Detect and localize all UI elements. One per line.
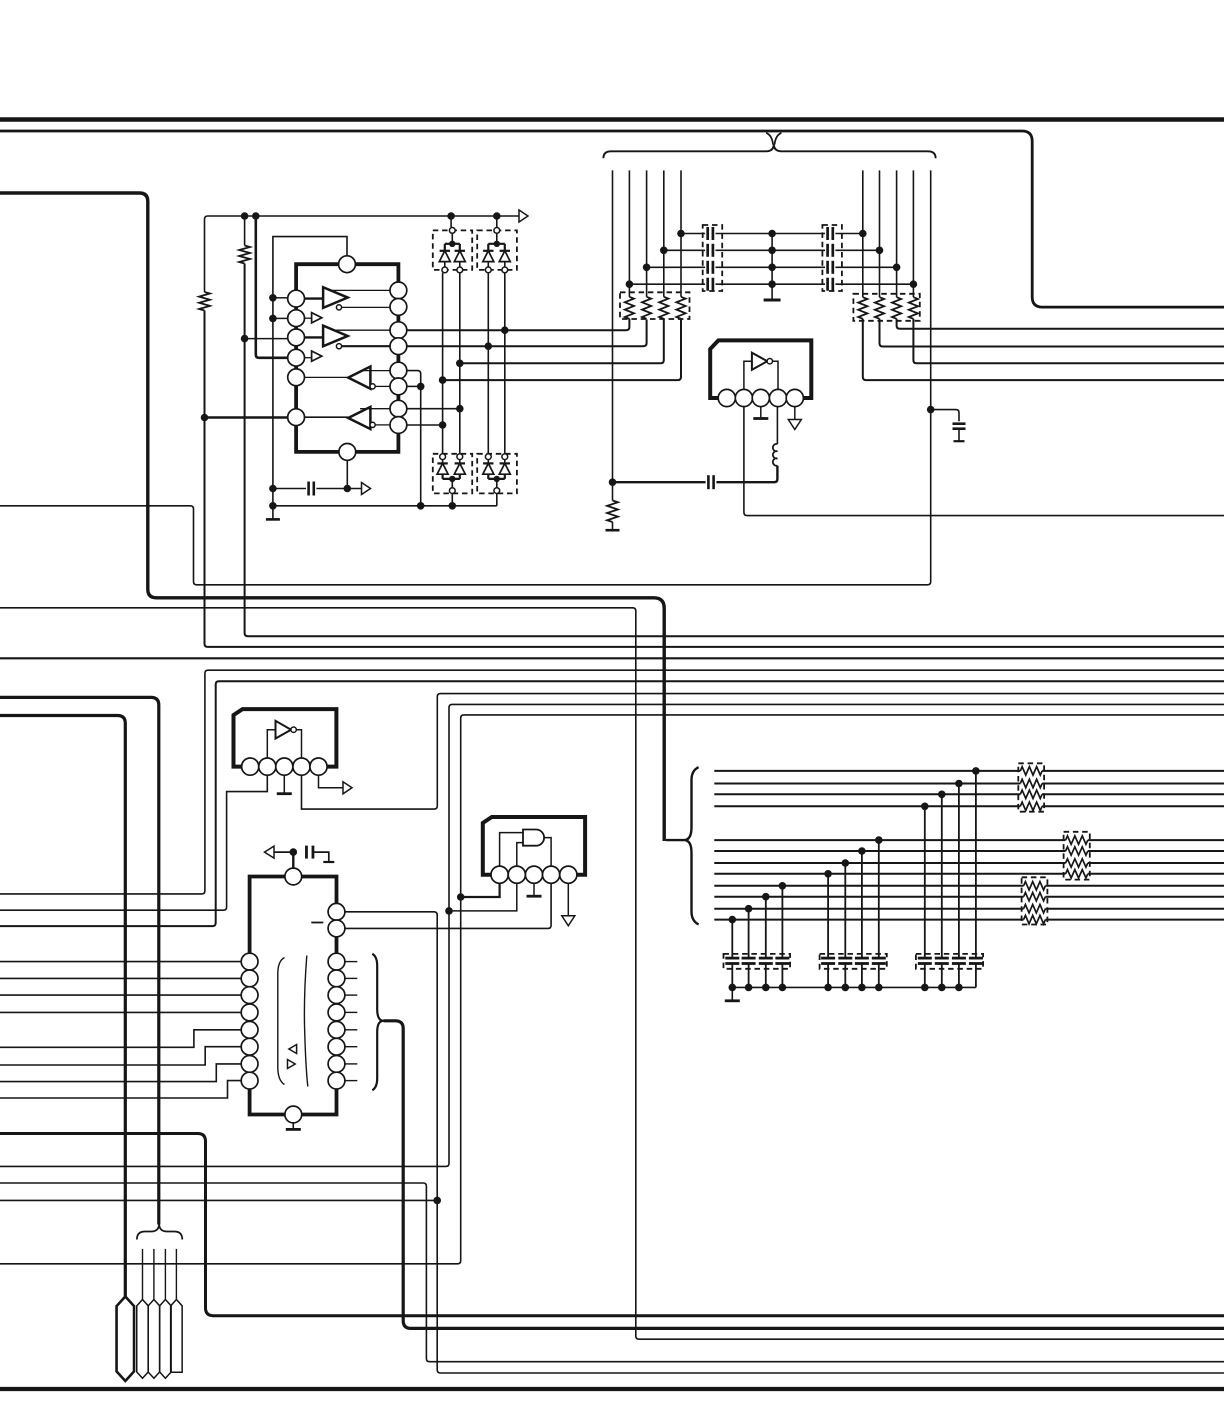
U1 left pin 5 — [288, 369, 305, 386]
U3 pin 1 — [242, 758, 259, 775]
U3 pin 4 — [293, 758, 310, 775]
capacitor C3 with ground — [931, 410, 966, 442]
arrow U4 pin5 down — [562, 916, 575, 926]
capacitor CA2 array — [820, 954, 887, 969]
op-amp U5 outline — [250, 877, 337, 1115]
node junction bus-x244 — [241, 212, 249, 220]
U5 small triangle right — [288, 1060, 296, 1069]
connector P1 big pin — [117, 1297, 135, 1382]
wire U3 pin4 net long right — [302, 694, 1224, 810]
wire y1200 from left — [0, 1199, 437, 1201]
U5 inner bracket right — [304, 956, 307, 1087]
connector P1 pin3 — [148, 1300, 160, 1379]
wire U4 pin2 net — [0, 704, 1224, 1166]
U1 top pin — [339, 256, 356, 273]
U1 right pin 1 — [390, 282, 407, 299]
wire U5 pin feeds 1-4 — [0, 962, 241, 1013]
wire y1183 net — [0, 1183, 1224, 1362]
U4 pin 5 — [560, 866, 577, 883]
node junction center-C — [768, 264, 776, 272]
wire D4 to bus — [496, 493, 498, 505]
resistor R3 — [607, 501, 618, 523]
wire top bus y216 with left drop x204.5 — [205, 216, 1224, 647]
ground G1 — [266, 516, 280, 520]
wire x879 out right — [880, 319, 1224, 347]
node junction x896-busC — [893, 264, 901, 272]
U1 right pin 7 — [390, 400, 407, 417]
wire vleft4 x663 — [663, 170, 665, 296]
node junction bus-x451 — [447, 212, 455, 220]
wire R3 to ground — [612, 522, 614, 530]
ground G3 — [764, 299, 781, 302]
ground G9 — [725, 999, 740, 1002]
op-amp U3 outline — [234, 709, 337, 767]
resistor RN4 network — [1064, 832, 1090, 880]
wire U1 inv D lines — [305, 409, 391, 425]
U5 left pin 3 — [241, 987, 258, 1004]
wire vright2 x879 — [879, 170, 881, 297]
inverter U2 bubble — [767, 359, 772, 364]
resistor RN5 network — [1022, 877, 1048, 924]
U1 right pin 4 — [390, 338, 407, 355]
resistor RN3 network — [1018, 763, 1044, 811]
wire U5 top pin net with cap arrow — [274, 846, 329, 868]
U5 left pin 4 — [241, 1004, 258, 1021]
U5 right pin 10 — [328, 1072, 345, 1089]
U2 pin 5 — [786, 389, 803, 406]
wire vleft3 x646 — [646, 170, 648, 296]
ground G6 — [527, 895, 542, 898]
wire long y658 full width — [0, 657, 1224, 659]
node junction x272-caprow — [269, 485, 277, 493]
capacitor CA3 array — [916, 954, 983, 969]
wire connector leads — [143, 1249, 177, 1300]
wire cap array taps — [729, 767, 980, 991]
wire long W4 y681 — [0, 681, 1224, 926]
resistor R2 — [239, 246, 250, 264]
wire diode drop x443 — [442, 273, 444, 454]
U4 pin 3 — [525, 866, 542, 883]
wire line y380 — [443, 320, 681, 381]
wire line y363 — [460, 320, 664, 364]
wire thick A to connector brace — [0, 697, 159, 1224]
node junction x612-caprow — [609, 478, 617, 486]
wire U4 pin4 link to U5 — [345, 883, 551, 928]
node junction x244-pin3 — [241, 335, 249, 343]
wire sub-border rail to right mid — [0, 131, 1224, 307]
U5 right pin 8 — [328, 1038, 345, 1055]
wire U5 staircase feed 8 — [0, 1081, 241, 1098]
wire diode drop x504 — [504, 273, 506, 454]
capacitor C2 row to U2 — [613, 466, 778, 490]
U5 left pin 5 — [241, 1021, 258, 1038]
wire U4 pin5 stub — [567, 883, 569, 916]
node junction bus-x420 — [417, 502, 425, 510]
wire pin1 feed — [273, 297, 288, 299]
wire U1 inv C lines — [305, 371, 391, 387]
U5 right pin 7 — [328, 1021, 345, 1038]
U5 top pin — [285, 868, 302, 885]
inverter D bubble — [370, 422, 375, 427]
connector P1 pin4 — [160, 1300, 172, 1379]
wire pin5-6 join to bus — [407, 371, 421, 506]
wire long W3 y670 — [0, 670, 1224, 894]
U1 left pin 3 — [288, 329, 305, 346]
wire U5 bottom pin ground — [292, 1123, 294, 1129]
U5 dash label — [311, 922, 323, 924]
U1 right pin 3 — [390, 322, 407, 339]
wire cap bus line C — [647, 261, 897, 274]
diode D1 dual pack — [433, 228, 472, 273]
wire pin7 line — [407, 408, 460, 410]
inverter U3 triangle — [276, 721, 292, 739]
wire thick feed left to right-bus brace — [0, 193, 664, 841]
wire U3 pin2 net to page left — [0, 775, 267, 910]
arrow U3 out — [343, 782, 352, 794]
buffer B2 small triangle — [312, 351, 322, 361]
U1 left pin 2 — [288, 310, 305, 327]
wire thick B to big pin — [0, 716, 125, 1297]
ground G8 — [286, 1128, 301, 1131]
wire U4 pin2 link — [449, 883, 517, 911]
U5 left pin 1 — [241, 953, 258, 970]
wire pin6 feed — [205, 416, 289, 418]
op-amp U1 outline — [296, 264, 398, 452]
U4 pin 1 — [491, 866, 508, 883]
wire U3 pin3 ground — [283, 775, 285, 793]
buffer A2 small triangle — [312, 313, 322, 323]
wire U4 gate output — [544, 838, 551, 867]
node junction x646-busC — [643, 264, 651, 272]
node junction bus-x452 — [449, 502, 457, 510]
node junction pin2-x449 — [445, 907, 453, 915]
wire vright4 x913 — [912, 170, 914, 297]
U5 small triangle left — [289, 1045, 297, 1054]
arrow U5 top left — [265, 846, 275, 858]
U5 inner bracket left — [278, 958, 285, 1085]
wire U3 pin5 arrow out — [319, 775, 344, 788]
U4 pin 4 — [543, 866, 560, 883]
wire right bus lines — [714, 771, 1224, 920]
wire U1 top pin to left rail x272.9 down to ground — [273, 237, 347, 516]
wire U2 inv output — [773, 361, 779, 389]
buffer B bubble — [336, 344, 341, 349]
wire U2 pin2 long out right — [744, 407, 1224, 516]
wire U3 inv output — [296, 730, 301, 758]
wire U2 pin3 ground — [760, 407, 762, 418]
U2 pin 2 — [735, 389, 752, 406]
node junction x913-busD — [910, 280, 918, 288]
inverter U3 bubble — [291, 727, 296, 732]
U3 pin 2 — [259, 758, 276, 775]
wire U4 gate input1 — [500, 833, 523, 867]
wire long y607 to bottom right — [0, 608, 1224, 1339]
wire x930 long net — [0, 170, 931, 584]
node junction x272-pin2 — [269, 315, 277, 323]
node junction center-B — [768, 247, 776, 255]
U5 right pin 9 — [328, 1056, 345, 1073]
op-amp U4 outline — [483, 817, 585, 875]
connector P1 pin2 — [137, 1300, 149, 1379]
diode D4 dual pack — [477, 454, 517, 494]
wire ground stub — [731, 987, 733, 1000]
inverter C triangle — [348, 367, 370, 389]
wire U1 buf B2 input — [305, 357, 312, 359]
U1 right pin 8 — [390, 417, 407, 434]
node junction pin1-x460 — [457, 893, 465, 901]
wire vleft5 x681 — [680, 170, 682, 296]
wire U4 pin3 ground — [533, 883, 535, 895]
wire x862 out right — [863, 319, 1224, 380]
wire pin3 feed — [245, 338, 288, 340]
node junction r1-pin6 tap — [201, 414, 209, 422]
U1 left pin 6 — [288, 409, 305, 426]
U5 right pin 4 — [328, 970, 345, 987]
node junction bus-x497 — [493, 212, 501, 220]
wire bus stub x451 x497 — [451, 216, 497, 228]
wire U1 buf B lines — [305, 330, 391, 346]
wire vright3 x896 — [896, 170, 898, 297]
wire connector brace — [137, 1224, 182, 1240]
wire U5 staircase feed 7 — [0, 1064, 241, 1082]
op-amp U2 outline — [710, 340, 811, 398]
U2 pin 1 — [718, 389, 735, 406]
wire cap bus line A — [681, 227, 863, 240]
wire U5 staircase feed 6 — [0, 1047, 241, 1065]
node junction pin8-x442 — [439, 421, 447, 429]
ground G2 — [606, 529, 620, 532]
wire diode drop x459 — [459, 273, 461, 454]
wire pin8 line — [407, 424, 443, 426]
ground G4 — [753, 417, 768, 420]
U5 left pin 6 — [241, 1038, 258, 1055]
wire cap array ground bus — [732, 986, 976, 988]
resistor R1 — [199, 292, 210, 311]
wire U5 right stubs — [345, 962, 357, 1081]
wire U2 pin5 stub — [794, 407, 796, 420]
inductor L1 — [773, 407, 778, 466]
arrow U2 pin5 open triangle down — [788, 420, 801, 430]
node junction pin56 — [417, 383, 425, 391]
wire cap bus line B — [664, 244, 880, 257]
wire pin2 feed — [273, 317, 288, 319]
U5 left pin 8 — [241, 1072, 258, 1089]
U2 pin 3 — [752, 389, 769, 406]
resistor RN2 network — [853, 294, 919, 321]
capacitor C1 row — [273, 482, 362, 496]
wire U4 pin1 link — [461, 883, 500, 897]
wire top distribution brace — [603, 144, 935, 158]
wire pin4 line y346 — [407, 320, 647, 347]
wire cap bus line D — [629, 278, 913, 291]
capacitor CA1 array — [724, 954, 791, 969]
wire U2 inv input — [744, 361, 752, 389]
inverter D triangle — [348, 407, 370, 429]
wire U5 staircase feed 5 — [0, 1030, 241, 1048]
node junction y330-x504 — [501, 326, 509, 334]
wire U1 buf A lines — [305, 290, 391, 307]
buffer A triangle — [323, 287, 348, 308]
wire x255.8 to pin4 — [256, 216, 288, 358]
ground G7 — [323, 861, 334, 863]
node junction y363-x459 — [456, 360, 464, 368]
wire pin3 line y330 — [407, 319, 630, 330]
resistor RN1 network — [620, 292, 690, 319]
wire top border — [0, 117, 1224, 122]
U5 right pin A — [328, 903, 345, 920]
wire thick C to bottom right — [0, 1134, 1224, 1316]
arrow out right at cap row — [362, 483, 371, 495]
wire x896 out right — [897, 319, 1224, 329]
wire thick T2 to bottom right — [384, 1021, 1224, 1329]
node junction bus-x255 — [252, 212, 260, 220]
AND gate U4 — [523, 830, 544, 846]
node junction x629-busD — [626, 280, 634, 288]
ground G5 — [277, 792, 292, 795]
buffer A bubble — [336, 305, 341, 310]
wire U1 buf A2 input — [305, 317, 312, 319]
buffer B triangle — [323, 326, 348, 347]
node bus feed neck — [766, 133, 781, 145]
wire U5 pinA net — [345, 912, 1224, 1373]
U5 left pin 2 — [241, 970, 258, 987]
U3 pin 3 — [276, 758, 293, 775]
node junction center-D — [768, 280, 776, 288]
wire U3 inv input — [267, 730, 275, 758]
diode D2 dual pack — [477, 228, 517, 273]
node junction x663-busB — [660, 247, 668, 255]
node junction U5 cap — [290, 848, 298, 856]
node junction x862-busA — [859, 230, 867, 238]
U4 pin 2 — [508, 866, 525, 883]
U5 right pin B — [328, 920, 345, 937]
U5 right pin 5 — [328, 987, 345, 1004]
wire vleft2 x629 — [628, 170, 630, 296]
node junction cap-botpin — [344, 485, 352, 493]
node junction y380-x442 — [439, 376, 447, 384]
wire vleft1 x612 to cap row and R ground — [612, 170, 614, 500]
wire U1 bottom pin drop — [346, 460, 348, 488]
U3 pin 5 — [310, 758, 327, 775]
node junction x272-busrow — [269, 502, 277, 510]
wire right bus brace — [666, 767, 699, 924]
wire x913 out right — [913, 319, 1224, 364]
U1 right pin 5 — [390, 362, 407, 379]
U5 right pin 3 — [328, 953, 345, 970]
U5 bottom pin — [285, 1106, 302, 1123]
arrow out right on top bus — [519, 210, 528, 222]
wire U4 pin1 net — [0, 715, 1224, 1264]
node junction x879-busB — [876, 247, 884, 255]
wire bottom border — [0, 1387, 1224, 1391]
wire diode drop x488 — [487, 273, 489, 454]
capacitor CN1 dashed box — [703, 225, 723, 291]
U1 right pin 6 — [390, 378, 407, 395]
U2 pin 4 — [769, 389, 786, 406]
diode D3 dual pack — [433, 454, 472, 494]
U1 left pin 1 — [288, 290, 305, 307]
U5 right pin 6 — [328, 1004, 345, 1021]
connector P1 pin5 — [171, 1300, 183, 1373]
wire vright1 x862 — [862, 170, 864, 297]
node junction center-A — [768, 230, 776, 238]
node junction pin7-x459 — [456, 405, 464, 413]
inverter U2 triangle — [752, 353, 767, 370]
capacitor CN2 dashed box — [822, 225, 842, 291]
U1 bottom pin — [339, 444, 356, 461]
inverter C bubble — [370, 384, 375, 389]
node junction x272-pin1 — [269, 294, 277, 302]
U1 right pin 2 — [390, 299, 407, 316]
wire cap bus center rail — [771, 234, 773, 299]
node junction x930-cap — [927, 406, 935, 414]
wire U5 right brace — [372, 954, 383, 1090]
U1 left pin 4 — [288, 349, 305, 366]
node junction x681-busA — [677, 230, 685, 238]
wire x244.6 drop to long line y636 — [245, 216, 1224, 636]
U5 left pin 7 — [241, 1056, 258, 1073]
node junction y346-x488 — [485, 342, 493, 350]
wire bottom diode bus — [273, 505, 497, 507]
node junction pinA-y1200 — [433, 1197, 441, 1205]
wire D3 to bus — [451, 493, 453, 505]
